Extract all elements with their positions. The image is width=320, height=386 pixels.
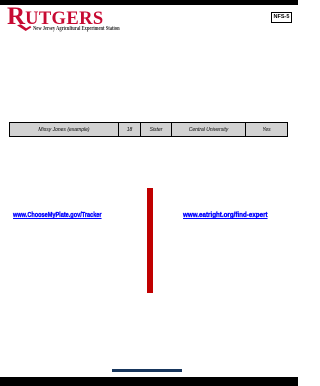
Rutgers wordmark [7, 4, 104, 29]
cell: Yes [246, 123, 288, 137]
example table [9, 122, 288, 137]
bottom black bar [0, 377, 298, 386]
red vertical divider line [147, 188, 153, 293]
cell: Central University [172, 123, 246, 137]
red swoosh wedge [16, 23, 33, 33]
Rutgers sub-text: New Jersey Agricultural Experiment Station [33, 26, 120, 32]
NFS-5 box [271, 12, 292, 23]
top black bar [0, 0, 298, 5]
right blue hyperlink [183, 212, 268, 219]
cell: Sister [141, 123, 172, 137]
cell: 18 [119, 123, 141, 137]
navy footer line [112, 369, 182, 372]
left blue hyperlink [13, 212, 102, 219]
cell: Missy Jones (example) [10, 123, 119, 137]
